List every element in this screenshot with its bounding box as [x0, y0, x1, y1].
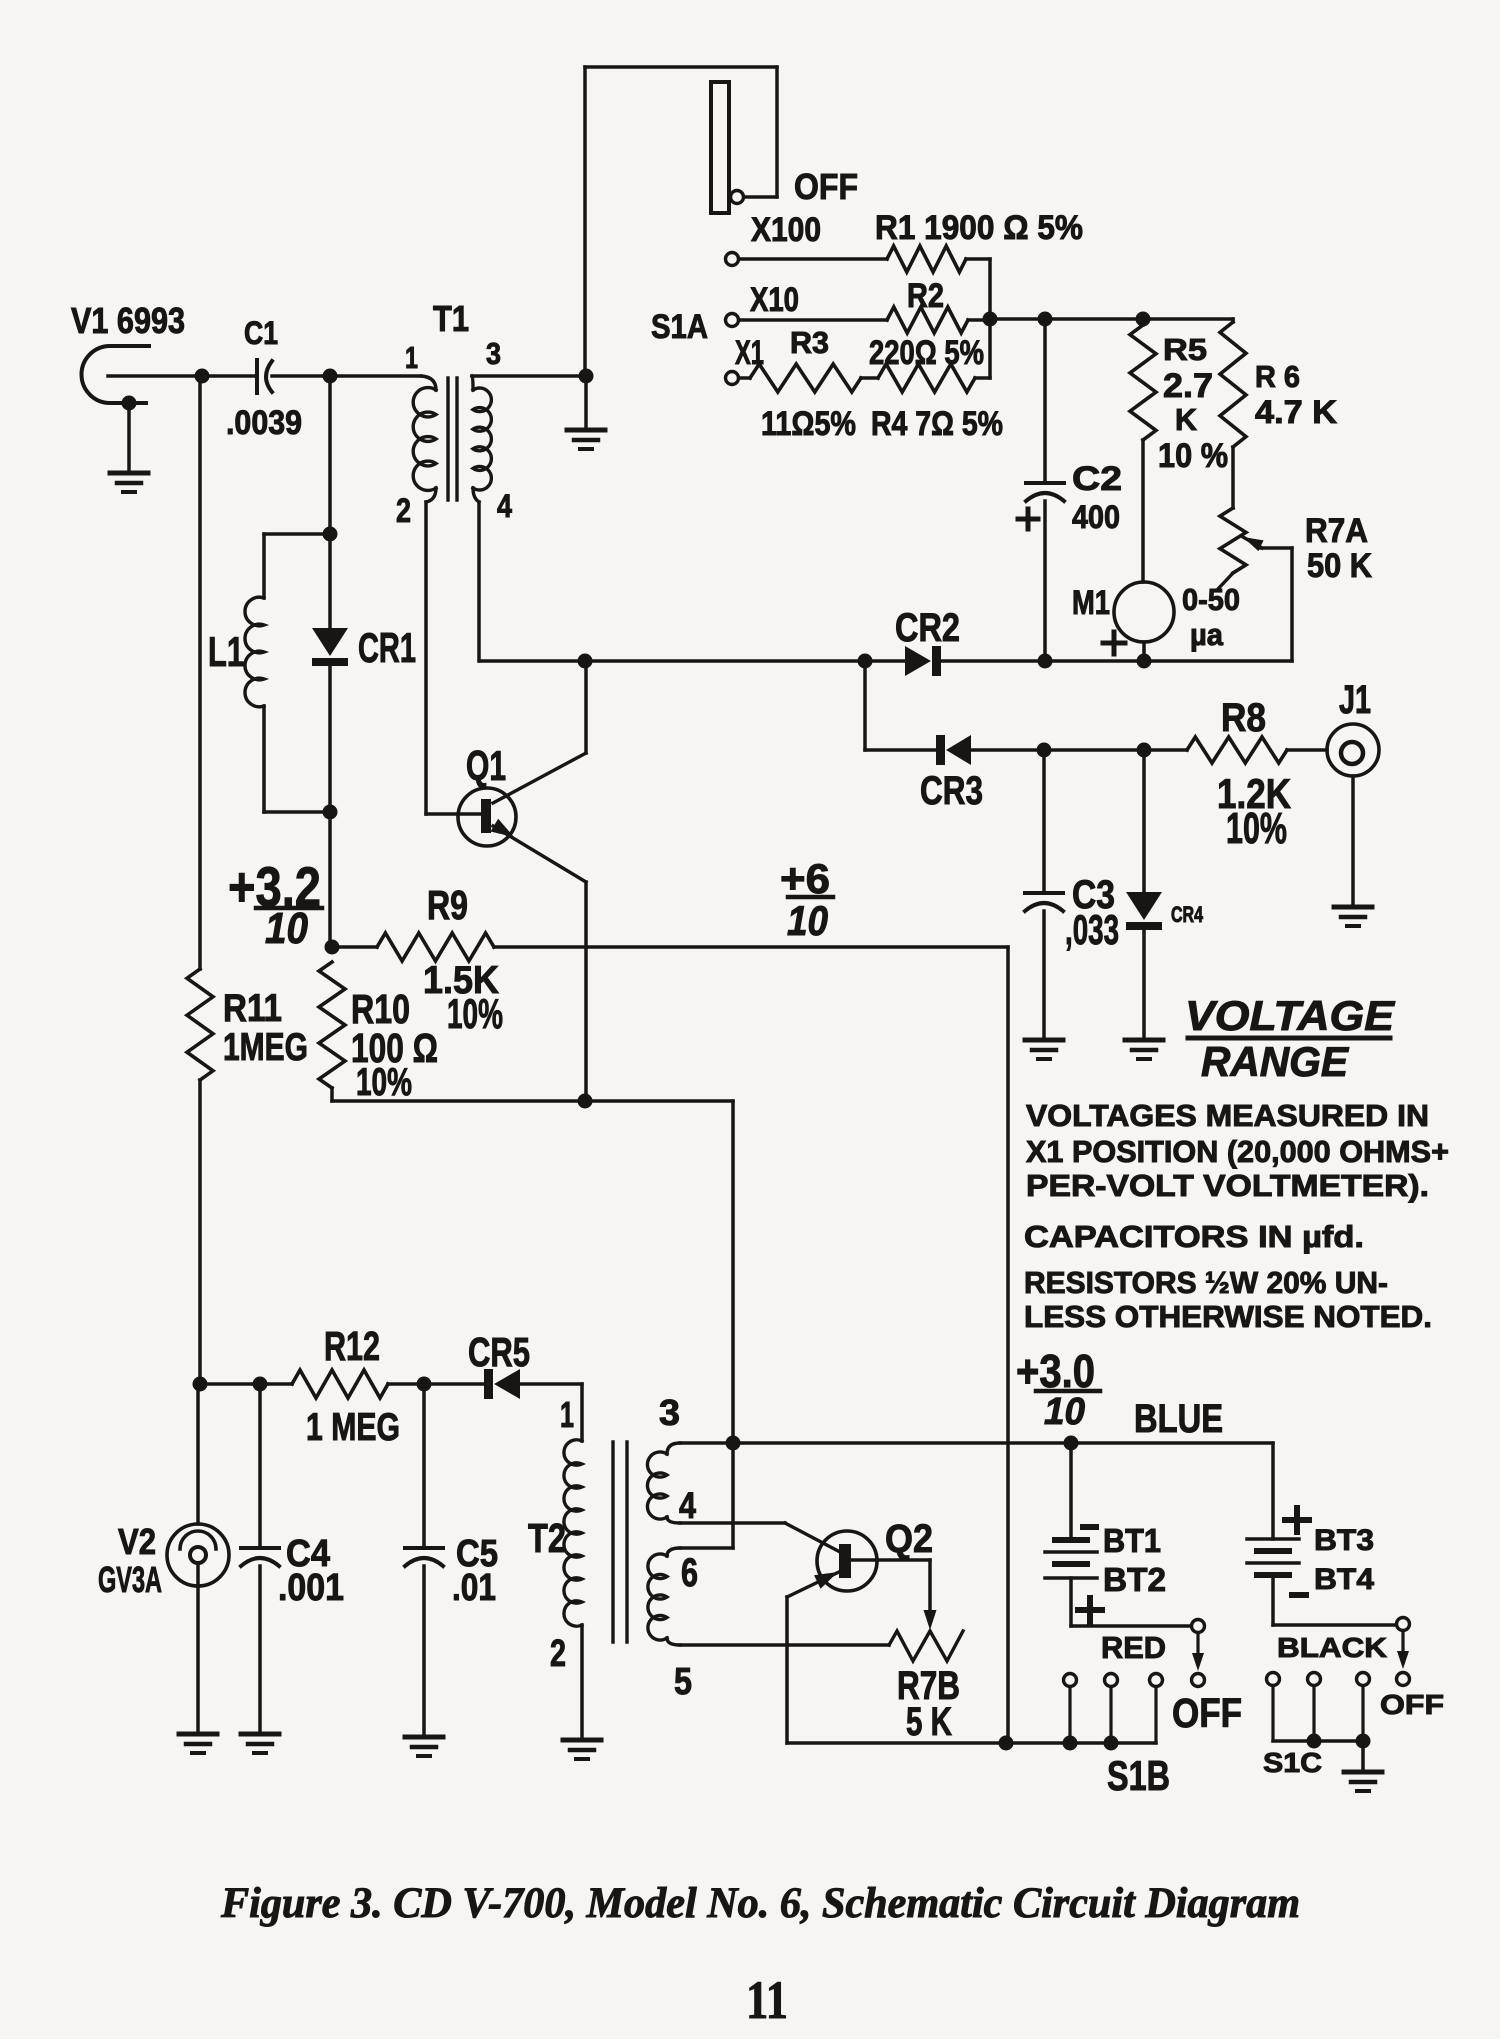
svg-text:2.7: 2.7 [1163, 367, 1213, 405]
svg-text:400: 400 [1072, 499, 1120, 535]
svg-text:220Ω 5%: 220Ω 5% [869, 334, 984, 372]
svg-text:CR2: CR2 [895, 606, 960, 650]
svg-text:LESS OTHERWISE NOTED.: LESS OTHERWISE NOTED. [1024, 1299, 1432, 1334]
svg-text:10: 10 [787, 897, 828, 944]
svg-text:C1: C1 [244, 315, 278, 351]
svg-text:BLUE: BLUE [1134, 1397, 1223, 1441]
svg-text:CR1: CR1 [358, 624, 416, 671]
svg-text:6: 6 [681, 1551, 698, 1595]
svg-text:BLACK: BLACK [1277, 1632, 1387, 1663]
svg-text:.001: .001 [278, 1567, 344, 1609]
svg-text:10%: 10% [356, 1061, 412, 1104]
svg-text:RED: RED [1101, 1630, 1166, 1665]
svg-text:4: 4 [679, 1485, 696, 1526]
svg-text:1MEG: 1MEG [223, 1026, 308, 1069]
svg-text:1 MEG: 1 MEG [306, 1406, 400, 1449]
svg-text:Q2: Q2 [885, 1517, 933, 1561]
svg-text:GV3A: GV3A [98, 1559, 162, 1600]
svg-text:BT3: BT3 [1314, 1524, 1374, 1557]
svg-text:.01: .01 [452, 1567, 496, 1609]
svg-text:3: 3 [486, 336, 501, 371]
svg-text:Q1: Q1 [466, 742, 506, 789]
svg-text:J1: J1 [1339, 678, 1371, 722]
svg-text:RESISTORS ½W 20% UN-: RESISTORS ½W 20% UN- [1024, 1265, 1388, 1300]
svg-text:R 6: R 6 [1255, 359, 1300, 394]
svg-text:CAPACITORS IN µfd.: CAPACITORS IN µfd. [1024, 1219, 1364, 1254]
svg-text:L1: L1 [208, 628, 244, 675]
svg-text:1: 1 [560, 1394, 574, 1435]
svg-text:11Ω5%: 11Ω5% [761, 405, 856, 443]
svg-text:T1: T1 [433, 298, 469, 339]
svg-text:R2: R2 [907, 277, 944, 315]
svg-text:R9: R9 [427, 882, 468, 928]
svg-text:S1A: S1A [651, 308, 708, 346]
svg-text:X1 POSITION (20,000 OHMS+: X1 POSITION (20,000 OHMS+ [1026, 1134, 1449, 1169]
svg-text:.0039: .0039 [226, 404, 302, 442]
svg-text:3: 3 [659, 1392, 680, 1433]
svg-text:CR4: CR4 [1171, 902, 1204, 927]
svg-text:K: K [1175, 402, 1198, 437]
svg-text:CR3: CR3 [920, 769, 983, 813]
svg-text:1: 1 [405, 340, 418, 375]
svg-text:50 K: 50 K [1307, 547, 1372, 585]
svg-text:+6: +6 [780, 855, 830, 902]
svg-text:0-50: 0-50 [1182, 582, 1240, 617]
svg-text:OFF: OFF [794, 166, 858, 207]
svg-text:S1C: S1C [1263, 1747, 1322, 1778]
svg-text:T2: T2 [528, 1515, 566, 1561]
svg-text:4.7 K: 4.7 K [1255, 394, 1337, 430]
svg-text:BT1: BT1 [1103, 1522, 1161, 1559]
svg-text:BT4: BT4 [1314, 1563, 1374, 1596]
svg-text:PER-VOLT VOLTMETER).: PER-VOLT VOLTMETER). [1026, 1168, 1429, 1203]
svg-text:R3: R3 [790, 325, 829, 360]
svg-text:R4 7Ω 5%: R4 7Ω 5% [871, 405, 1003, 443]
svg-text:R5: R5 [1163, 332, 1207, 367]
svg-text:S1B: S1B [1107, 1752, 1170, 1799]
svg-text:R11: R11 [223, 987, 282, 1030]
svg-text:R12: R12 [324, 1323, 380, 1369]
svg-text:10 %: 10 % [1158, 437, 1228, 475]
svg-text:2: 2 [550, 1633, 566, 1675]
svg-text:VOLTAGE: VOLTAGE [1185, 992, 1396, 1039]
svg-text:10%: 10% [447, 990, 503, 1037]
svg-text:4: 4 [497, 488, 512, 524]
svg-text:11: 11 [746, 1970, 788, 2030]
svg-text:X10: X10 [750, 281, 799, 319]
svg-text:10%: 10% [1226, 804, 1287, 853]
svg-text:OFF: OFF [1172, 1690, 1242, 1736]
svg-text:VOLTAGES MEASURED IN: VOLTAGES MEASURED IN [1026, 1098, 1429, 1133]
svg-text:M1: M1 [1072, 584, 1110, 622]
svg-text:OFF: OFF [1380, 1689, 1444, 1720]
svg-text:2: 2 [396, 492, 411, 530]
svg-text:10: 10 [265, 904, 308, 953]
svg-text:V1 6993: V1 6993 [71, 300, 185, 341]
svg-text:R8: R8 [1221, 696, 1266, 740]
svg-text:RANGE: RANGE [1201, 1038, 1350, 1085]
svg-text:BT2: BT2 [1103, 1561, 1166, 1598]
svg-text:V2: V2 [118, 1521, 156, 1562]
svg-text:R1 1900 Ω 5%: R1 1900 Ω 5% [875, 209, 1083, 247]
svg-text:X100: X100 [751, 211, 821, 249]
svg-text:µa: µa [1190, 617, 1224, 652]
svg-text:10: 10 [1044, 1391, 1085, 1433]
svg-text:R7A: R7A [1305, 512, 1368, 550]
svg-text:C2: C2 [1072, 460, 1122, 498]
svg-text:CR5: CR5 [468, 1329, 530, 1375]
svg-text:5 K: 5 K [906, 1700, 952, 1744]
svg-text:,033: ,033 [1065, 906, 1119, 953]
svg-text:5: 5 [674, 1661, 692, 1703]
svg-text:X1: X1 [735, 334, 764, 372]
svg-text:+3.0: +3.0 [1016, 1345, 1095, 1397]
svg-text:Figure 3. CD V-700, Model No.: Figure 3. CD V-700, Model No. 6, Schemat… [220, 1880, 1300, 1927]
